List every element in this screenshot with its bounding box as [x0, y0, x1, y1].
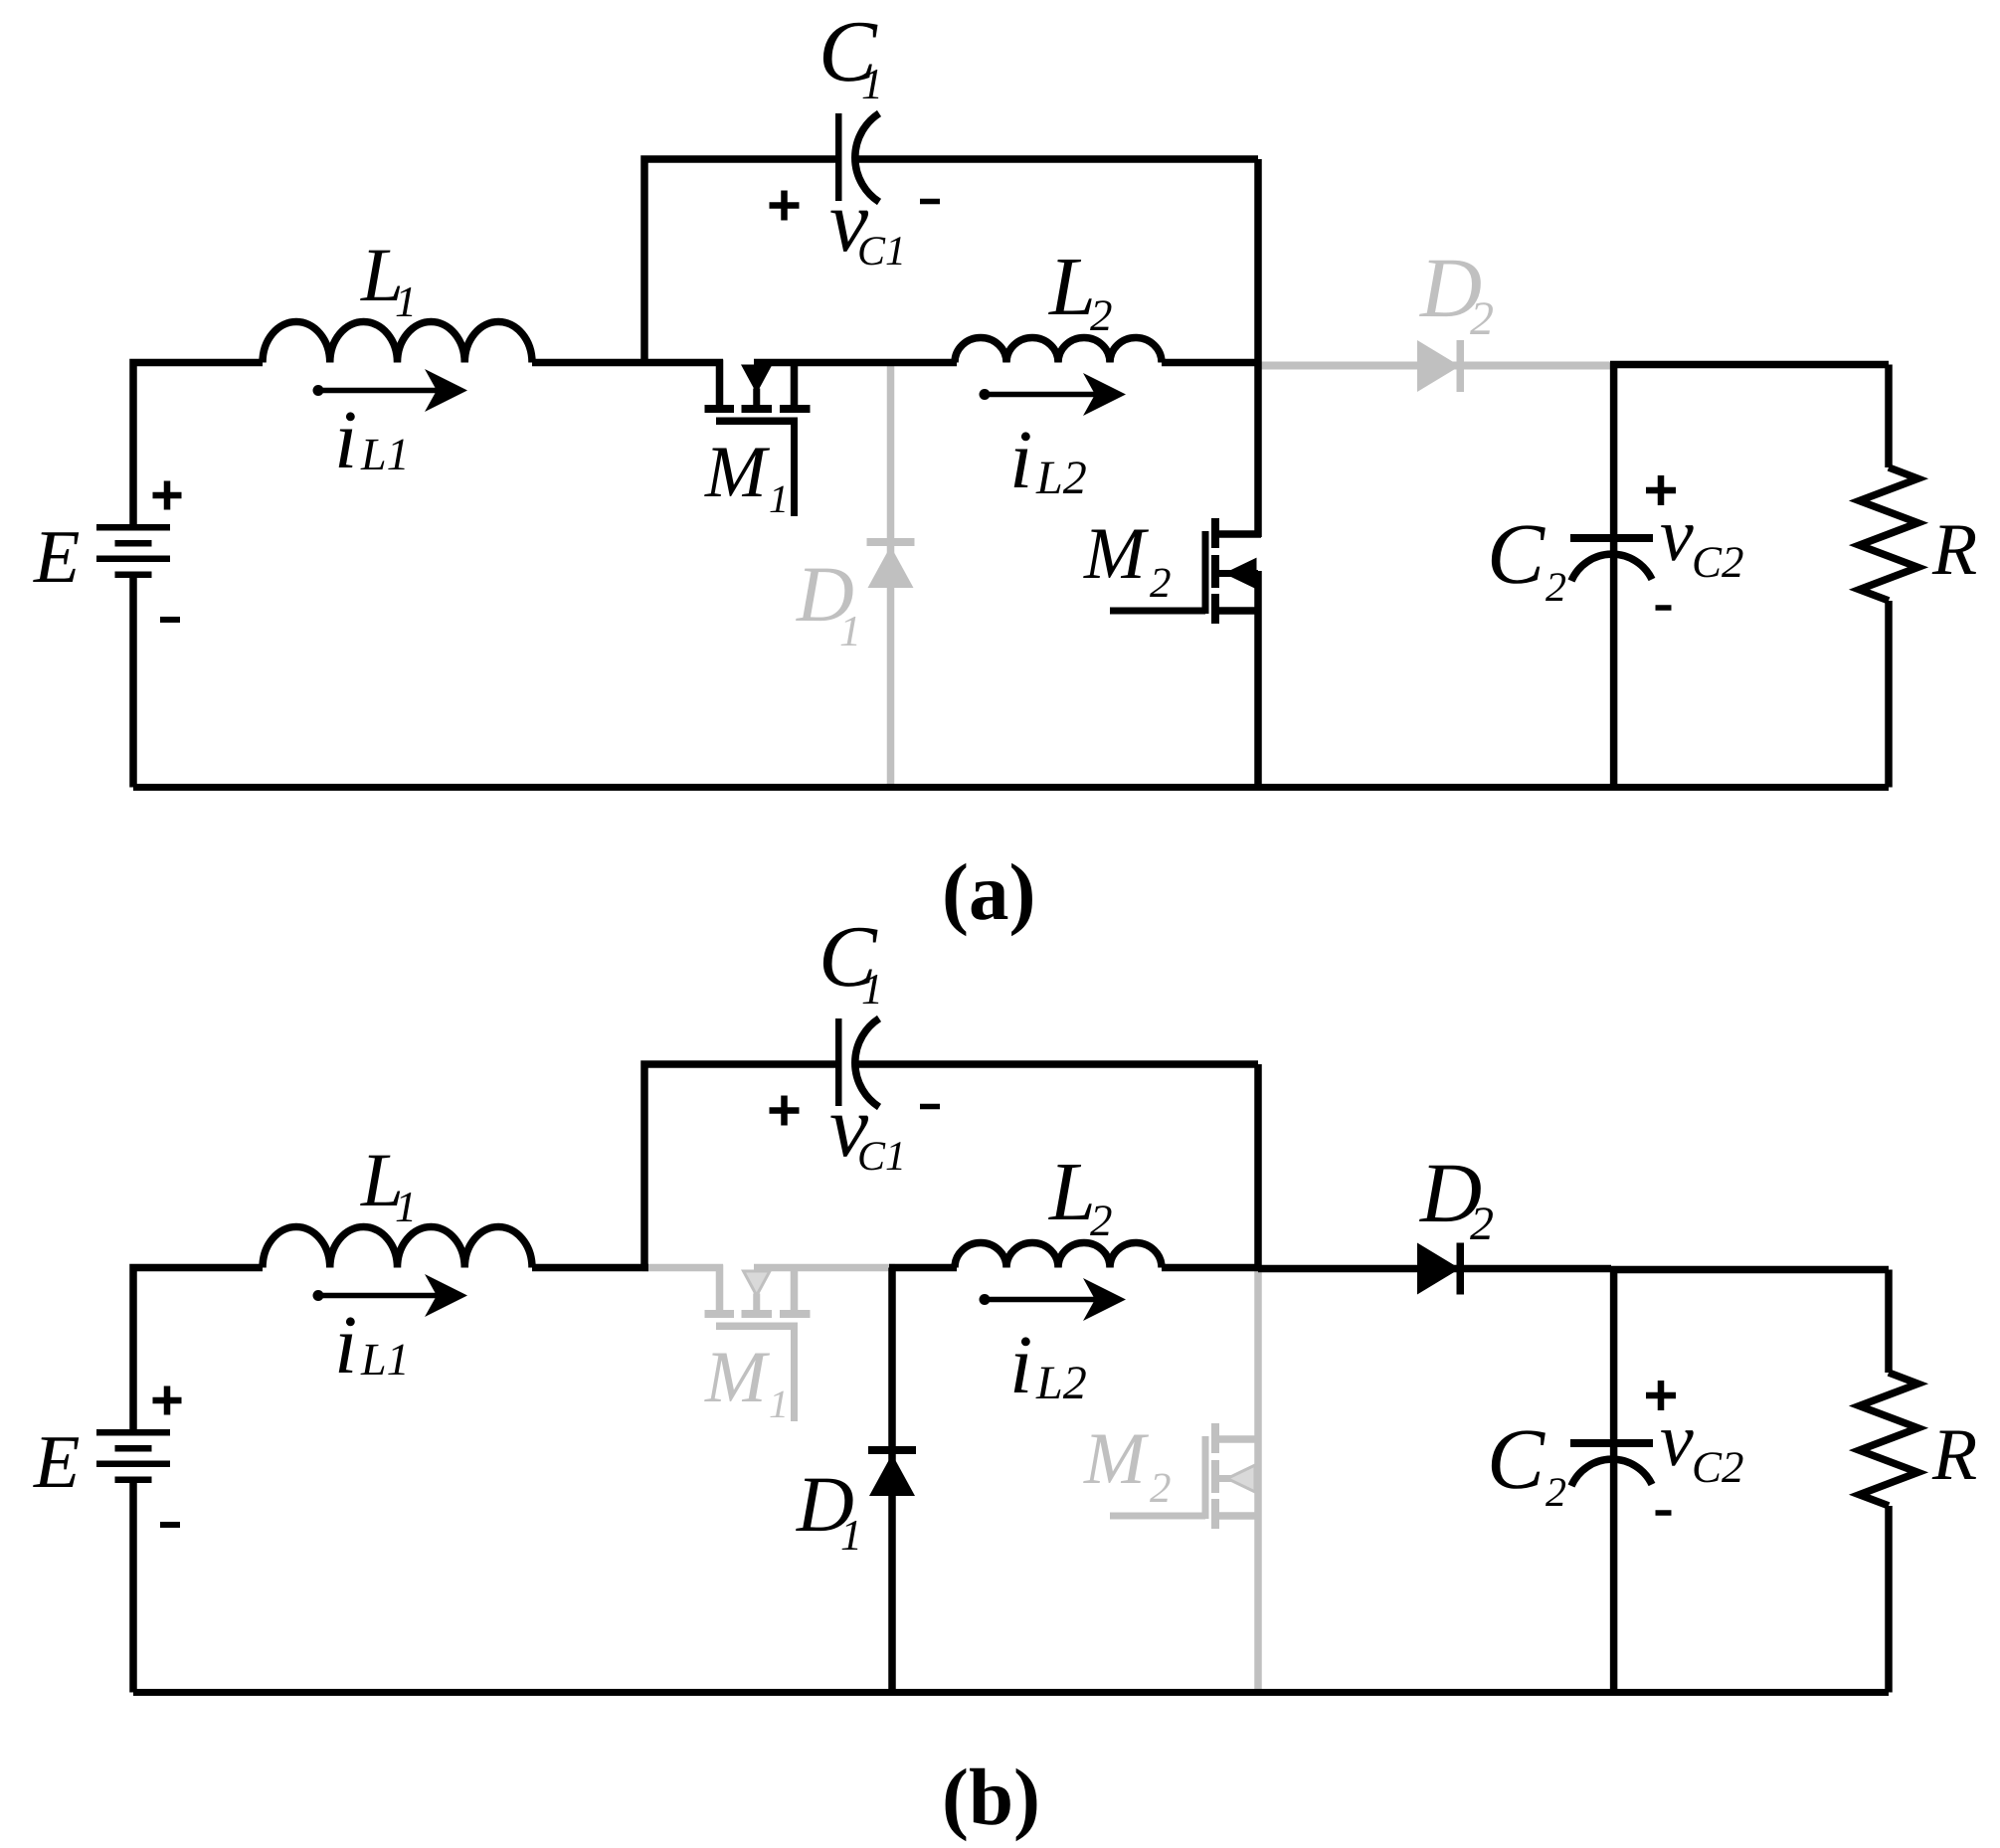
- minus battery (b): [160, 1522, 180, 1528]
- label C1 (b): [818, 909, 883, 1014]
- svg-text:R: R: [1931, 1414, 1977, 1496]
- svg-text:M: M: [1083, 1418, 1150, 1500]
- wire C2 bottom lead (b): [1610, 1447, 1618, 1693]
- svg-text:2: 2: [1470, 1198, 1494, 1250]
- arrow iL1 (a): [313, 369, 468, 412]
- svg-text:2: 2: [1090, 1196, 1113, 1245]
- wire source to L1 (a): [133, 363, 263, 525]
- minus C2 (a): [1656, 605, 1672, 611]
- arrow iL1 (b): [313, 1274, 468, 1317]
- svg-text:v: v: [1660, 493, 1694, 577]
- svg-text:1: 1: [769, 476, 789, 521]
- transistor M1 (b): [705, 1265, 811, 1422]
- svg-text:E: E: [33, 515, 80, 599]
- wire to load (a): [1610, 361, 1889, 369]
- svg-text:L: L: [1048, 241, 1096, 333]
- svg-text:(a): (a): [942, 847, 1035, 937]
- battery E (a): [96, 524, 170, 578]
- arrow iL2 (a): [980, 373, 1127, 416]
- plus battery (b): [153, 1386, 182, 1415]
- minus C2 (b): [1656, 1510, 1672, 1516]
- wire D1 branch (a): [887, 363, 895, 788]
- label M1 (b): [704, 1337, 789, 1426]
- wire battery to bottom (b): [129, 1483, 137, 1693]
- label M2 (a): [1083, 513, 1172, 607]
- svg-text:1: 1: [839, 607, 861, 655]
- minus battery (a): [160, 617, 180, 623]
- svg-text:C2: C2: [1692, 1442, 1744, 1492]
- label D2 (b): [1419, 1145, 1494, 1250]
- wire C1 right (b): [857, 1060, 1258, 1068]
- label vC1 (a): [829, 174, 906, 275]
- inductor L1 (a): [263, 322, 532, 363]
- svg-text:2: 2: [1150, 1465, 1172, 1512]
- label D1 (b): [796, 1461, 862, 1560]
- label iL1 (a): [334, 394, 410, 486]
- svg-text:M: M: [1083, 513, 1150, 595]
- wire C1 left (a): [644, 159, 835, 363]
- svg-text:i: i: [334, 394, 357, 486]
- wire C2 top lead (b): [1610, 1268, 1618, 1442]
- resistor R (a): [1860, 467, 1918, 601]
- wire rail upper (a): [1254, 159, 1262, 537]
- minus C1 (b): [920, 1104, 940, 1110]
- capacitor C1 (b): [835, 1018, 879, 1107]
- wire M1 segment right (b): [754, 1264, 895, 1272]
- transistor M2 (b): [1110, 1423, 1261, 1529]
- svg-text:E: E: [33, 1420, 80, 1504]
- wire rail lower (a): [1254, 571, 1262, 788]
- svg-text:2: 2: [1545, 565, 1566, 611]
- wire R top (a): [1885, 365, 1893, 468]
- wire M1 segment left (b): [642, 1264, 723, 1272]
- wire R top (b): [1885, 1270, 1893, 1374]
- capacitor C2 (b): [1570, 1439, 1653, 1486]
- wire C2 top lead (a): [1610, 363, 1618, 537]
- svg-text:2: 2: [1090, 290, 1113, 340]
- label D2 (a): [1419, 240, 1494, 345]
- svg-text:C: C: [1487, 1410, 1545, 1507]
- svg-text:L2: L2: [1035, 1357, 1087, 1409]
- diode D2 (b): [1417, 1243, 1464, 1295]
- svg-text:M: M: [704, 1337, 771, 1418]
- svg-text:(b): (b): [942, 1753, 1040, 1842]
- wire L1 to node (b): [532, 1264, 648, 1272]
- wire L1 to M1 (a): [532, 359, 723, 367]
- plus battery (a): [153, 481, 182, 510]
- plus C2 (a): [1646, 475, 1676, 505]
- svg-text:C1: C1: [857, 1134, 906, 1180]
- wire D1 branch (b): [888, 1268, 896, 1693]
- wire bottom rail (a): [133, 784, 1889, 791]
- wire rail to D2 (b): [1258, 1265, 1611, 1273]
- label iL2 (b): [1009, 1319, 1087, 1411]
- label L2 (b): [1048, 1146, 1113, 1245]
- battery E (b): [96, 1429, 170, 1483]
- wire to load (b): [1610, 1266, 1889, 1274]
- svg-text:R: R: [1931, 509, 1977, 591]
- capacitor C2 (a): [1570, 534, 1653, 581]
- plus C2 (b): [1646, 1381, 1676, 1410]
- wire D2 branch (a): [1258, 362, 1611, 370]
- label iL1 (b): [334, 1299, 410, 1391]
- transistor M1 (a): [705, 360, 811, 517]
- wire C2 bottom lead (a): [1610, 542, 1618, 788]
- svg-text:L2: L2: [1035, 452, 1087, 504]
- wire L2 to rail (b): [1162, 1264, 1258, 1272]
- diode D2 (a): [1417, 340, 1464, 392]
- wire C1 right (a): [857, 155, 1258, 163]
- label C2 (b): [1487, 1410, 1566, 1516]
- plus C1 (a): [770, 191, 800, 221]
- label vC2 (b): [1660, 1398, 1744, 1492]
- minus C1 (a): [920, 199, 940, 205]
- label iL2 (a): [1009, 414, 1087, 506]
- inductor L2 (b): [955, 1243, 1162, 1268]
- capacitor C1 (a): [835, 113, 879, 202]
- wire M2 rail (b): [1254, 1268, 1262, 1693]
- svg-text:i: i: [1009, 1319, 1032, 1411]
- label C2 (a): [1487, 505, 1566, 611]
- label vC2 (a): [1660, 493, 1744, 587]
- wire D1 node to L2 (b): [889, 1264, 957, 1272]
- resistor R (b): [1860, 1373, 1918, 1506]
- wire rail upper (b): [1254, 1064, 1262, 1271]
- svg-text:C2: C2: [1692, 537, 1744, 587]
- svg-text:i: i: [1009, 414, 1032, 506]
- mosfet: [1110, 518, 1261, 624]
- svg-text:C1: C1: [857, 229, 906, 275]
- label M2 (b): [1083, 1418, 1172, 1512]
- wire R bottom (b): [1885, 1506, 1893, 1693]
- svg-text:2: 2: [1470, 292, 1494, 345]
- svg-text:M: M: [704, 432, 771, 513]
- label M1 (a): [704, 432, 789, 521]
- wire M1 to L2 (a): [754, 359, 957, 367]
- label C1 (a): [818, 4, 883, 108]
- svg-text:2: 2: [1545, 1470, 1566, 1516]
- svg-text:L: L: [1048, 1146, 1096, 1238]
- svg-text:C: C: [1487, 505, 1545, 602]
- wire R bottom (a): [1885, 601, 1893, 788]
- svg-text:L1: L1: [360, 1334, 410, 1385]
- label L1 (b): [360, 1137, 417, 1231]
- svg-text:1: 1: [840, 1511, 862, 1560]
- wire L2 to rail (a): [1162, 359, 1258, 367]
- wire source to L1 (b): [133, 1268, 263, 1430]
- label D1 (a): [796, 551, 861, 655]
- wire battery to bottom (a): [129, 578, 137, 788]
- diode D1 (b): [868, 1446, 916, 1496]
- svg-text:L1: L1: [360, 429, 410, 479]
- label vC1 (b): [829, 1079, 906, 1180]
- wire C1 left (b): [644, 1064, 835, 1268]
- svg-text:1: 1: [861, 60, 883, 108]
- plus C1 (b): [770, 1096, 800, 1126]
- svg-text:v: v: [1660, 1398, 1694, 1482]
- diode D1 (a): [867, 538, 915, 588]
- label L2 (a): [1048, 241, 1113, 340]
- label L1 (a): [360, 232, 417, 326]
- svg-text:1: 1: [395, 1183, 417, 1231]
- svg-text:1: 1: [395, 277, 417, 326]
- inductor L2 (a): [955, 338, 1162, 363]
- svg-text:i: i: [334, 1299, 357, 1391]
- svg-text:2: 2: [1150, 560, 1172, 607]
- arrow iL2 (b): [980, 1278, 1127, 1321]
- wire bottom rail (b): [133, 1689, 1889, 1696]
- svg-text:1: 1: [769, 1382, 789, 1426]
- svg-text:1: 1: [861, 965, 883, 1014]
- inductor L1 (b): [263, 1227, 532, 1268]
